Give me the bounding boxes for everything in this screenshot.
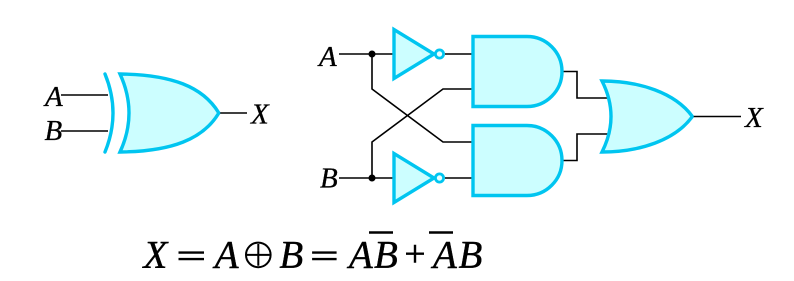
svg-text:B: B bbox=[45, 115, 63, 147]
svg-text:B: B bbox=[459, 234, 483, 277]
svg-text:A: A bbox=[430, 234, 457, 277]
svg-text:X: X bbox=[744, 102, 764, 134]
svg-text:X: X bbox=[250, 99, 270, 131]
svg-text:B: B bbox=[279, 234, 303, 277]
svg-text:X: X bbox=[142, 234, 170, 277]
svg-text:A: A bbox=[212, 234, 239, 277]
svg-text:A: A bbox=[43, 81, 63, 113]
svg-text:A: A bbox=[317, 41, 337, 73]
svg-text:A: A bbox=[346, 234, 373, 277]
svg-text:B: B bbox=[320, 163, 338, 195]
svg-text:B: B bbox=[374, 234, 398, 277]
